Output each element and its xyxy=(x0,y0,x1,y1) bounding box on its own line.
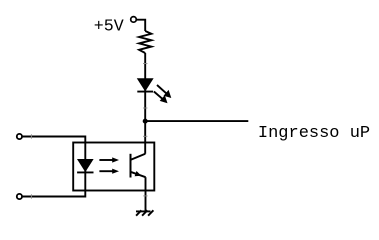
opto LED xyxy=(77,160,93,172)
ground xyxy=(136,210,153,215)
optocoupler U1 package xyxy=(73,143,154,191)
pin tick bottom terminal xyxy=(30,194,32,198)
pin tick collector wire xyxy=(143,135,147,137)
LED D1 xyxy=(137,79,153,92)
wire LED cathode to junction xyxy=(144,92,146,122)
svg-text:Ingresso uP: Ingresso uP xyxy=(258,124,370,143)
LED D1 emission arrow 2 xyxy=(154,92,168,104)
terminal +5V xyxy=(131,17,137,23)
terminal anode left xyxy=(17,134,22,139)
wire opto LED cathode to terminal xyxy=(22,172,85,196)
terminal cathode left xyxy=(17,194,22,199)
LED D1 emission arrow 1 xyxy=(157,85,171,98)
node junction xyxy=(143,119,148,124)
pin tick resistor-LED xyxy=(143,63,147,65)
wire from +5V terminal to resistor top xyxy=(137,20,146,31)
wire emitter to ground xyxy=(145,177,147,211)
phototransistor Q1 xyxy=(131,154,146,178)
wire anode terminal to opto LED xyxy=(22,137,85,161)
wire junction to phototransistor collector xyxy=(144,121,146,154)
opto light arrow 2 xyxy=(99,169,119,174)
resistor R1 xyxy=(139,31,151,53)
pin tick top terminal xyxy=(30,134,32,138)
pin tick emitter wire xyxy=(143,195,147,197)
wire resistor to LED anode xyxy=(144,53,146,79)
wire junction to Ingresso uP xyxy=(145,120,248,122)
svg-text:+5V: +5V xyxy=(94,17,124,36)
pin tick LED-junction xyxy=(143,107,147,109)
opto light arrow 1 xyxy=(99,157,119,162)
